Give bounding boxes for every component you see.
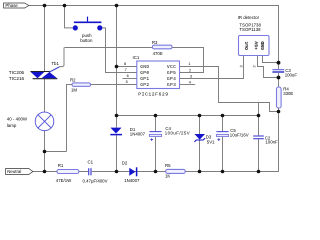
svg-text:40 - 400W: 40 - 400W — [7, 116, 28, 121]
svg-text:8: 8 — [124, 62, 126, 66]
svg-text:GP4: GP4 — [167, 76, 176, 82]
svg-text:TSOP1138: TSOP1138 — [239, 27, 261, 32]
svg-text:GND: GND — [260, 41, 266, 50]
svg-text:PIC12F629: PIC12F629 — [138, 92, 168, 98]
svg-text:GP1: GP1 — [140, 76, 149, 82]
svg-text:1N4007: 1N4007 — [130, 131, 146, 136]
svg-text:1N4007: 1N4007 — [124, 178, 140, 183]
svg-text:Out: Out — [244, 41, 250, 50]
svg-text:R2: R2 — [70, 78, 76, 83]
svg-text:GP5: GP5 — [167, 70, 176, 76]
svg-text:+5V: +5V — [254, 41, 260, 50]
svg-text:R1: R1 — [58, 163, 64, 168]
svg-text:6: 6 — [127, 74, 129, 78]
svg-text:lamp: lamp — [7, 123, 17, 128]
svg-text:100uF/25V: 100uF/25V — [165, 131, 190, 136]
svg-text:0.47μF/400V: 0.47μF/400V — [83, 178, 108, 183]
svg-text:330E: 330E — [283, 91, 293, 96]
svg-text:2: 2 — [189, 68, 191, 72]
svg-text:D2: D2 — [122, 161, 128, 166]
svg-text:7: 7 — [125, 68, 127, 72]
svg-text:GP0: GP0 — [140, 70, 149, 76]
svg-text:GND: GND — [140, 64, 149, 70]
svg-text:100uF: 100uF — [285, 72, 298, 77]
svg-text:3: 3 — [239, 65, 243, 67]
svg-text:VCC: VCC — [167, 64, 176, 70]
svg-text:1: 1 — [188, 62, 190, 66]
svg-text:10uF/16V: 10uF/16V — [230, 132, 249, 137]
svg-text:R5: R5 — [165, 163, 171, 168]
svg-text:Phase: Phase — [5, 3, 18, 8]
svg-text:100nF: 100nF — [265, 140, 278, 145]
svg-text:470E: 470E — [153, 51, 163, 56]
svg-text:4: 4 — [189, 81, 191, 85]
svg-text:47E/1W: 47E/1W — [56, 178, 72, 183]
svg-text:button: button — [80, 38, 93, 43]
svg-text:5V1: 5V1 — [207, 140, 215, 145]
svg-text:3: 3 — [190, 75, 192, 79]
svg-text:IR detector: IR detector — [238, 15, 260, 20]
svg-text:C1: C1 — [88, 159, 94, 164]
svg-text:1K: 1K — [165, 174, 170, 179]
svg-text:Neutral: Neutral — [7, 169, 21, 174]
svg-text:1M: 1M — [71, 88, 77, 93]
svg-text:TIC216: TIC216 — [9, 76, 25, 81]
svg-text:Tb1: Tb1 — [51, 61, 59, 66]
svg-text:GP2: GP2 — [140, 82, 149, 88]
svg-text:5: 5 — [126, 80, 128, 84]
svg-text:TIC206: TIC206 — [9, 70, 25, 75]
svg-text:R3: R3 — [152, 40, 158, 45]
svg-text:2: 2 — [252, 65, 256, 67]
svg-text:GP3: GP3 — [167, 82, 176, 88]
svg-text:IC1: IC1 — [133, 55, 140, 60]
